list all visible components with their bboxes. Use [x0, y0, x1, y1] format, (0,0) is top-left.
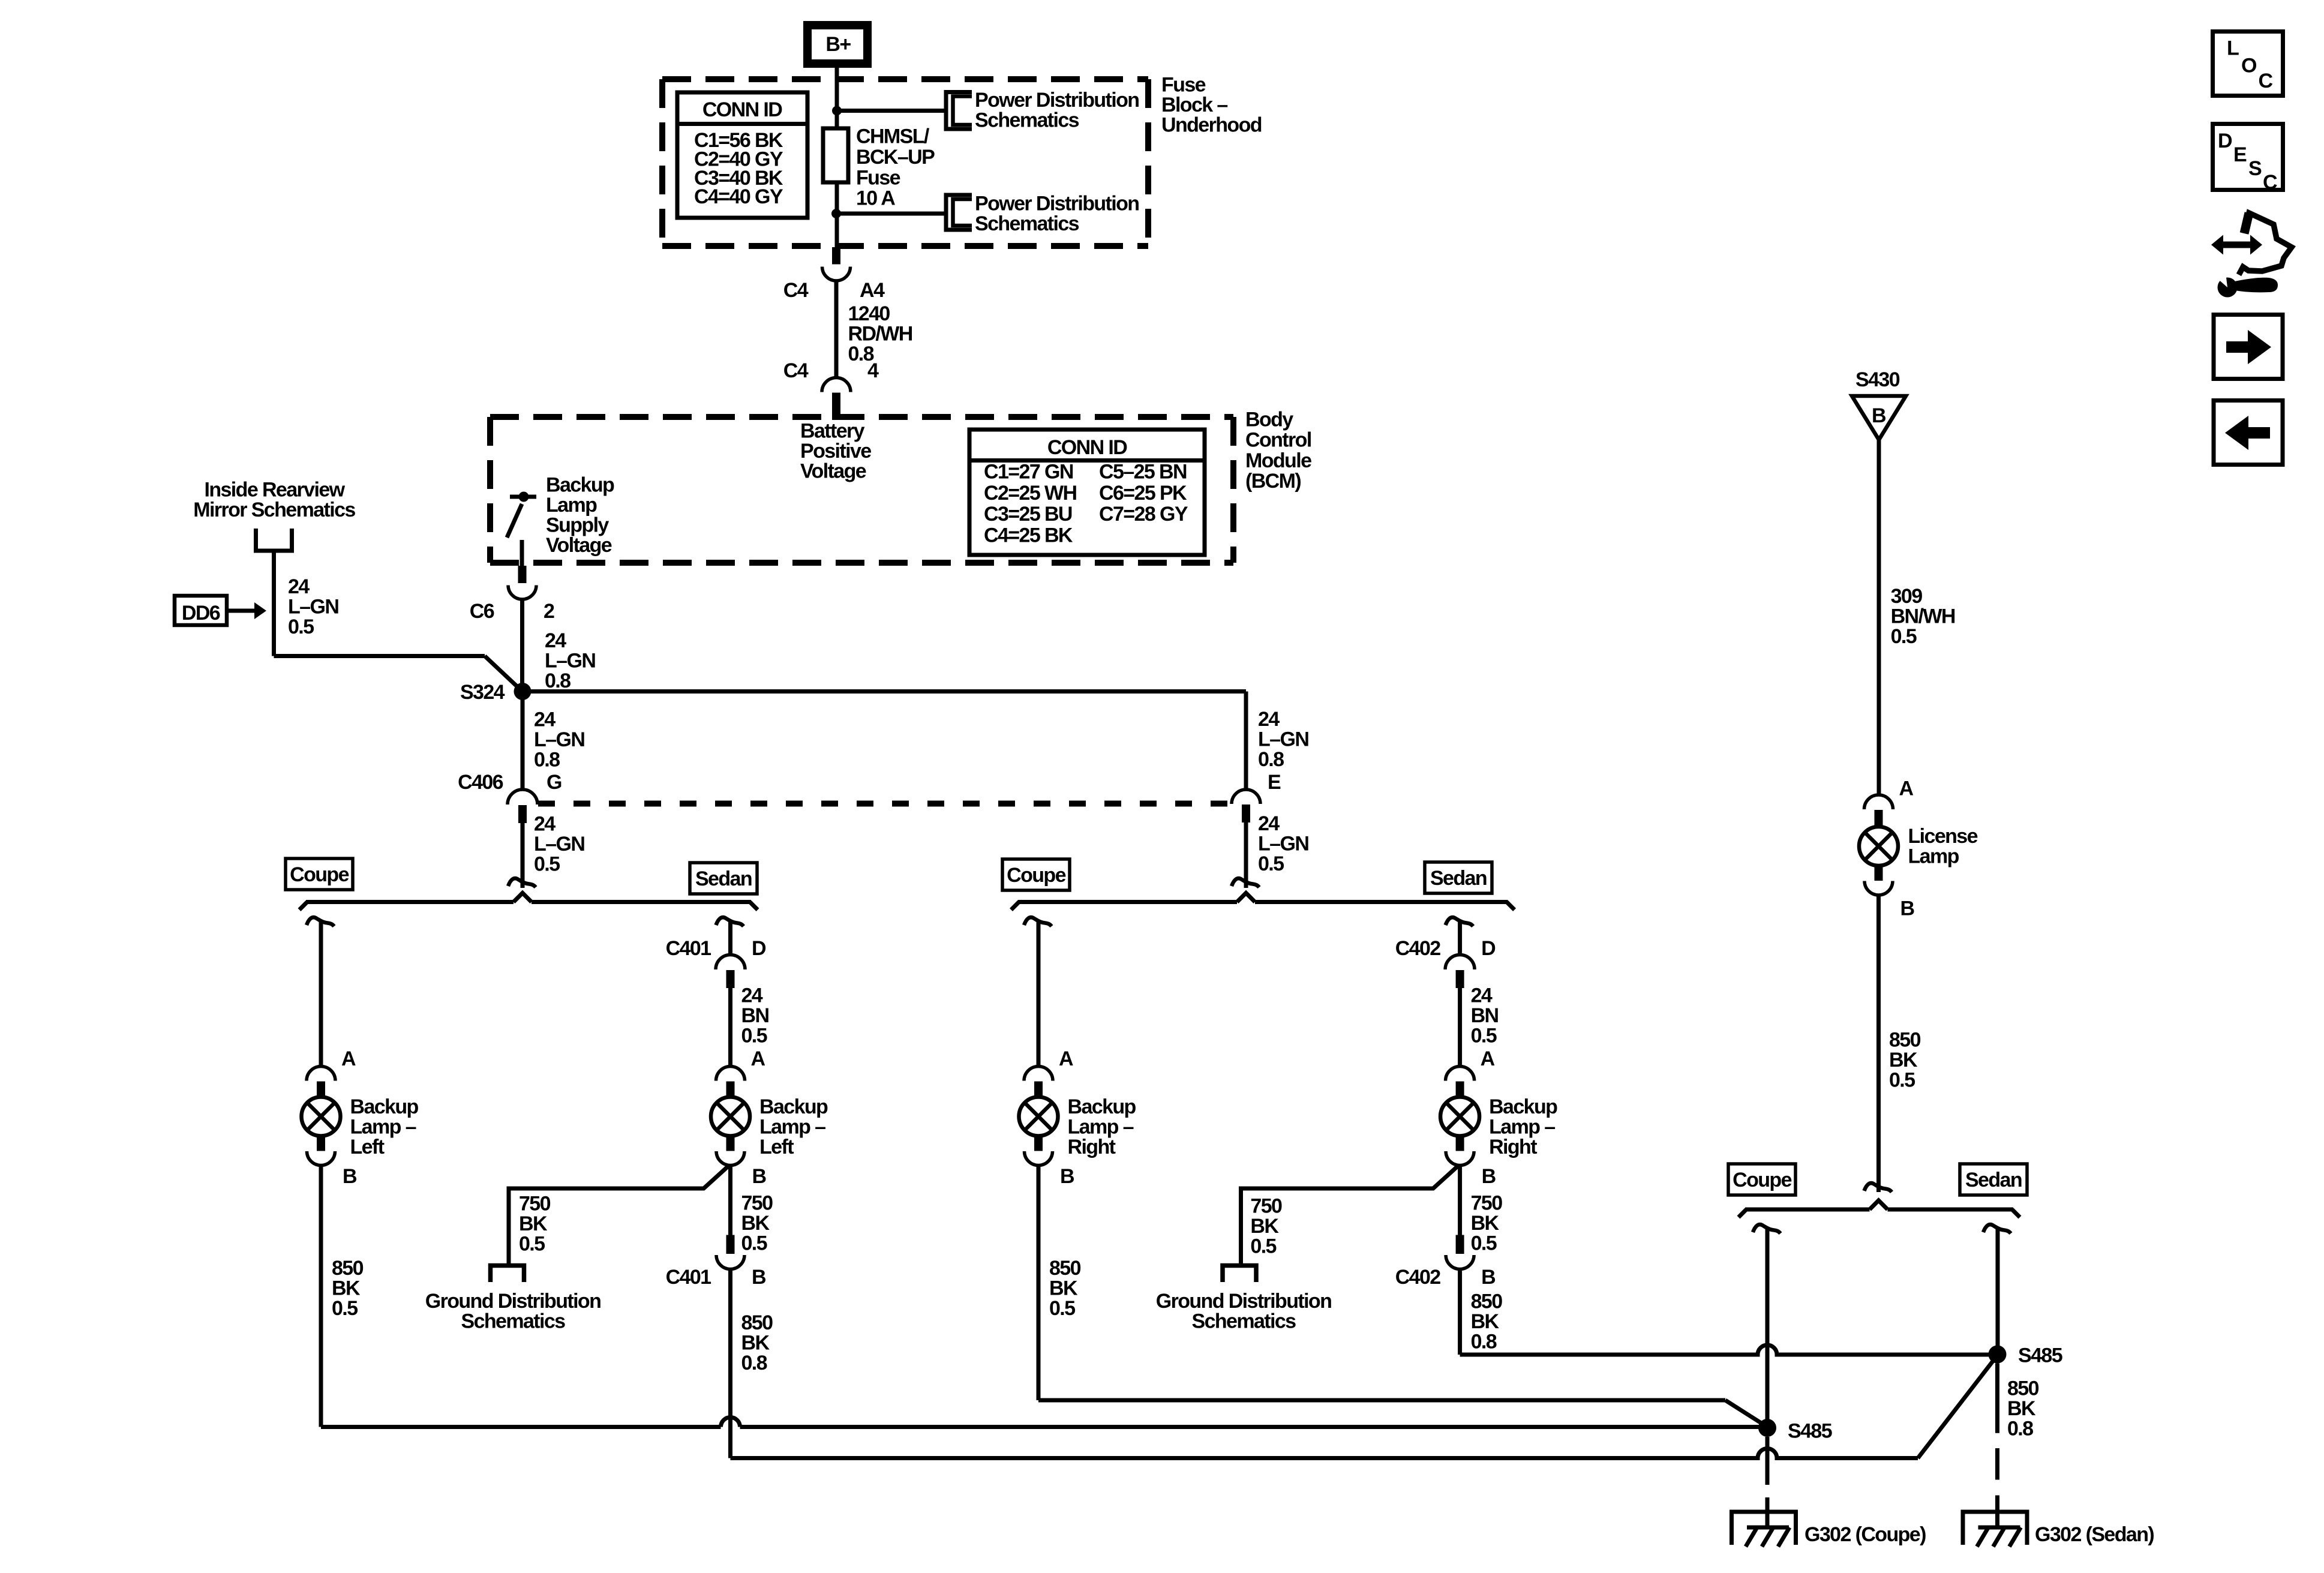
svg-text:750: 750: [1250, 1195, 1282, 1218]
svg-text:750: 750: [741, 1192, 773, 1215]
svg-text:C2=25 WH: C2=25 WH: [984, 482, 1076, 505]
svg-text:RD/WH: RD/WH: [848, 323, 912, 346]
svg-text:24: 24: [1258, 708, 1280, 731]
svg-text:L–GN: L–GN: [545, 650, 595, 673]
svg-text:BK: BK: [2007, 1397, 2036, 1420]
svg-text:C402: C402: [1395, 1266, 1441, 1289]
svg-text:0.5: 0.5: [1049, 1297, 1075, 1320]
svg-text:B: B: [1481, 1266, 1496, 1289]
svg-text:Coupe: Coupe: [290, 863, 349, 886]
svg-text:Inside Rearview: Inside Rearview: [204, 479, 345, 502]
svg-text:Power Distribution: Power Distribution: [975, 89, 1139, 112]
svg-text:Lamp –: Lamp –: [1068, 1116, 1134, 1139]
svg-text:A: A: [341, 1047, 356, 1070]
svg-text:850: 850: [741, 1311, 773, 1334]
svg-text:BN: BN: [1471, 1004, 1499, 1027]
svg-text:0.5: 0.5: [1471, 1232, 1497, 1255]
svg-text:C401: C401: [666, 1266, 711, 1289]
svg-text:Lamp –: Lamp –: [1489, 1116, 1555, 1139]
svg-text:BK: BK: [1471, 1310, 1500, 1333]
svg-text:0.5: 0.5: [741, 1232, 767, 1255]
svg-text:L–GN: L–GN: [288, 596, 338, 619]
svg-text:A4: A4: [860, 279, 885, 302]
svg-text:BK: BK: [1049, 1277, 1078, 1300]
svg-text:BK: BK: [1250, 1215, 1279, 1238]
svg-text:License: License: [1908, 825, 1978, 848]
svg-text:2: 2: [544, 600, 554, 623]
svg-text:Sedan: Sedan: [1430, 867, 1487, 890]
svg-text:Lamp –: Lamp –: [759, 1116, 825, 1139]
svg-text:E: E: [2233, 143, 2247, 166]
svg-text:Lamp: Lamp: [546, 494, 597, 517]
svg-text:(BCM): (BCM): [1245, 470, 1301, 493]
svg-text:B: B: [752, 1165, 767, 1188]
svg-text:0.8: 0.8: [545, 670, 571, 692]
svg-text:Left: Left: [350, 1136, 385, 1158]
svg-text:C4: C4: [783, 279, 809, 302]
svg-text:S324: S324: [460, 681, 505, 704]
svg-text:Right: Right: [1068, 1136, 1116, 1158]
svg-text:0.5: 0.5: [1250, 1235, 1276, 1258]
svg-text:C4=25 BK: C4=25 BK: [984, 524, 1073, 547]
svg-text:C3=25 BU: C3=25 BU: [984, 503, 1072, 526]
svg-text:24: 24: [534, 709, 556, 731]
svg-text:Block –: Block –: [1161, 94, 1227, 116]
svg-text:Schematics: Schematics: [1192, 1310, 1296, 1333]
svg-text:24: 24: [534, 813, 556, 836]
svg-text:A: A: [751, 1047, 765, 1070]
svg-text:0.5: 0.5: [534, 853, 560, 876]
svg-text:0.5: 0.5: [1889, 1069, 1915, 1092]
svg-text:Ground Distribution: Ground Distribution: [425, 1290, 601, 1313]
svg-text:850: 850: [332, 1257, 364, 1280]
svg-text:C401: C401: [666, 937, 711, 960]
svg-text:BK: BK: [1889, 1049, 1918, 1071]
svg-text:850: 850: [1471, 1290, 1503, 1313]
svg-text:BK: BK: [741, 1332, 770, 1355]
svg-text:C6=25 PK: C6=25 PK: [1099, 482, 1187, 505]
svg-text:CONN ID: CONN ID: [702, 98, 782, 121]
svg-text:L–GN: L–GN: [534, 728, 584, 751]
svg-text:D: D: [2218, 130, 2232, 152]
svg-text:Backup: Backup: [546, 474, 614, 497]
svg-text:0.5: 0.5: [741, 1025, 767, 1047]
svg-text:O: O: [2241, 55, 2257, 77]
svg-text:Voltage: Voltage: [546, 534, 612, 557]
svg-text:Control: Control: [1245, 429, 1311, 452]
svg-text:Body: Body: [1245, 409, 1293, 431]
svg-text:BCK–UP: BCK–UP: [856, 146, 935, 169]
svg-text:A: A: [1481, 1047, 1495, 1070]
svg-text:24: 24: [741, 984, 763, 1007]
svg-text:C: C: [2259, 70, 2273, 92]
svg-text:24: 24: [1258, 812, 1280, 835]
svg-text:C1=27 GN: C1=27 GN: [984, 461, 1073, 484]
svg-text:S: S: [2248, 157, 2262, 180]
svg-text:G302 (Coupe): G302 (Coupe): [1804, 1523, 1926, 1546]
svg-text:C402: C402: [1395, 937, 1441, 960]
svg-text:C7=28 GY: C7=28 GY: [1099, 503, 1188, 526]
svg-text:L–GN: L–GN: [1258, 728, 1308, 751]
svg-text:BN: BN: [741, 1004, 769, 1027]
svg-text:Fuse: Fuse: [856, 166, 900, 189]
svg-text:C5–25 BN: C5–25 BN: [1099, 461, 1187, 484]
svg-text:24: 24: [1471, 984, 1493, 1007]
svg-text:Mirror Schematics: Mirror Schematics: [193, 499, 355, 521]
svg-text:DD6: DD6: [182, 602, 220, 625]
svg-text:BK: BK: [1471, 1212, 1500, 1235]
svg-text:Module: Module: [1245, 449, 1311, 472]
svg-text:B: B: [752, 1266, 766, 1289]
svg-text:0.5: 0.5: [519, 1233, 545, 1256]
svg-text:C4: C4: [783, 359, 809, 382]
svg-text:CHMSL/: CHMSL/: [856, 125, 930, 148]
svg-text:Backup: Backup: [1489, 1095, 1557, 1118]
svg-text:Fuse: Fuse: [1161, 74, 1206, 97]
svg-text:24: 24: [288, 575, 310, 598]
svg-text:B: B: [1872, 404, 1886, 427]
svg-text:D: D: [1481, 937, 1496, 960]
svg-text:S430: S430: [1855, 368, 1900, 391]
svg-text:C406: C406: [458, 771, 503, 794]
svg-text:B: B: [343, 1165, 357, 1188]
svg-text:0.5: 0.5: [1258, 852, 1284, 875]
svg-text:E: E: [1268, 771, 1281, 794]
svg-text:Left: Left: [759, 1136, 794, 1158]
svg-text:Supply: Supply: [546, 514, 609, 537]
svg-text:L–GN: L–GN: [534, 833, 584, 855]
svg-text:L–GN: L–GN: [1258, 833, 1308, 855]
svg-text:Backup: Backup: [1068, 1095, 1136, 1118]
svg-text:G302 (Sedan): G302 (Sedan): [2035, 1523, 2154, 1546]
svg-text:Lamp –: Lamp –: [350, 1116, 416, 1139]
svg-text:BN/WH: BN/WH: [1891, 605, 1955, 628]
svg-text:Backup: Backup: [350, 1095, 419, 1118]
svg-text:0.8: 0.8: [741, 1352, 767, 1374]
svg-text:Coupe: Coupe: [1007, 864, 1065, 887]
svg-text:B+: B+: [825, 33, 851, 56]
svg-text:10 A: 10 A: [856, 187, 895, 210]
svg-text:B: B: [1482, 1165, 1496, 1188]
svg-text:A: A: [1059, 1047, 1073, 1070]
svg-text:850: 850: [2007, 1377, 2039, 1400]
svg-text:Battery: Battery: [800, 420, 865, 443]
svg-text:750: 750: [1471, 1192, 1503, 1215]
svg-text:850: 850: [1889, 1029, 1921, 1052]
svg-text:BK: BK: [519, 1212, 548, 1235]
svg-text:B: B: [1900, 897, 1915, 920]
svg-text:L: L: [2227, 37, 2239, 60]
svg-text:750: 750: [519, 1193, 551, 1215]
svg-text:BK: BK: [741, 1212, 770, 1235]
svg-text:S485: S485: [2018, 1344, 2062, 1367]
svg-text:Positive: Positive: [800, 440, 871, 463]
svg-text:Lamp: Lamp: [1908, 845, 1959, 868]
svg-text:Backup: Backup: [759, 1095, 828, 1118]
svg-text:0.8: 0.8: [1258, 748, 1284, 771]
svg-text:Sedan: Sedan: [1965, 1169, 2022, 1191]
svg-text:0.8: 0.8: [1471, 1330, 1497, 1353]
svg-text:CONN ID: CONN ID: [1047, 436, 1127, 459]
svg-text:Sedan: Sedan: [695, 867, 752, 890]
svg-text:B: B: [1060, 1165, 1074, 1188]
svg-text:C: C: [2263, 171, 2277, 194]
svg-text:Schematics: Schematics: [461, 1310, 566, 1333]
svg-text:24: 24: [545, 629, 566, 652]
svg-text:1240: 1240: [848, 302, 890, 325]
svg-text:0.5: 0.5: [332, 1297, 358, 1320]
svg-text:BK: BK: [332, 1277, 361, 1300]
svg-text:0.5: 0.5: [1471, 1025, 1497, 1047]
svg-text:G: G: [547, 771, 562, 794]
svg-text:4: 4: [867, 359, 879, 382]
svg-text:0.5: 0.5: [288, 616, 314, 638]
svg-text:Voltage: Voltage: [800, 460, 866, 483]
svg-text:C4=40 GY: C4=40 GY: [694, 185, 783, 208]
svg-text:A: A: [1899, 778, 1914, 800]
svg-text:C6: C6: [470, 600, 494, 623]
svg-text:309: 309: [1891, 585, 1923, 608]
svg-text:Power Distribution: Power Distribution: [975, 193, 1139, 215]
svg-text:850: 850: [1049, 1257, 1081, 1280]
svg-text:Schematics: Schematics: [975, 212, 1079, 235]
svg-text:Schematics: Schematics: [975, 109, 1079, 132]
svg-text:0.8: 0.8: [2007, 1418, 2033, 1440]
svg-text:D: D: [752, 937, 766, 960]
svg-text:S485: S485: [1788, 1420, 1832, 1443]
svg-text:Right: Right: [1489, 1136, 1537, 1158]
svg-text:0.8: 0.8: [534, 749, 560, 772]
svg-text:Coupe: Coupe: [1733, 1169, 1791, 1191]
svg-text:Ground Distribution: Ground Distribution: [1156, 1290, 1332, 1313]
svg-text:0.5: 0.5: [1891, 625, 1917, 648]
svg-text:Underhood: Underhood: [1161, 114, 1262, 137]
